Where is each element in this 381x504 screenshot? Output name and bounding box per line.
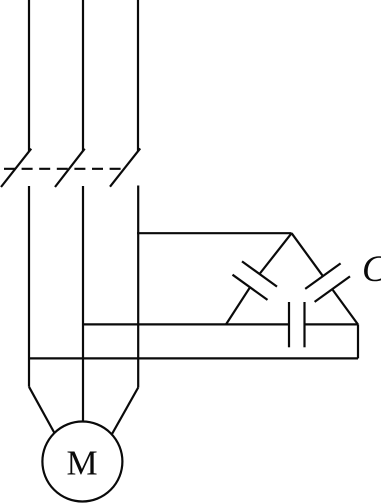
wire phase L2 top vertical xyxy=(82,0,84,152)
switch S pole 2 blade xyxy=(55,149,85,187)
wire phase L1 top vertical xyxy=(28,0,30,152)
wire bus right segment xyxy=(305,323,359,325)
switch S pole 1 blade xyxy=(1,149,31,187)
wire delta right branch upper lead xyxy=(292,233,323,276)
wire delta left branch lower lead xyxy=(226,287,250,324)
capacitor C bottom plate pair xyxy=(289,302,305,347)
wire L1 slanted lead to motor xyxy=(29,387,55,434)
wire phase L2 lower vertical xyxy=(82,186,84,423)
wire right side vertical xyxy=(357,324,359,358)
wire bus from L1 (bottom horizontal) xyxy=(29,357,358,359)
wire phase L3 top vertical xyxy=(137,0,139,151)
capacitor C right plate pair xyxy=(305,263,350,302)
wire phase L3 lower vertical xyxy=(137,186,139,388)
switch S mechanical link (dashed) xyxy=(4,168,124,170)
wire L3 slanted lead to motor xyxy=(112,388,138,435)
motor M circle xyxy=(42,422,122,502)
wire phase L1 lower vertical xyxy=(28,186,30,387)
switch S pole 3 blade xyxy=(110,148,140,186)
capacitor C left plate pair xyxy=(233,261,278,300)
wire bus from L2 left segment xyxy=(83,323,289,325)
wire delta left branch upper lead xyxy=(260,233,292,274)
svg-text:M: M xyxy=(66,444,97,483)
wire L3 to delta apex (horizontal) xyxy=(137,232,292,234)
wire delta right branch lower lead xyxy=(333,290,358,325)
svg-text:C: C xyxy=(362,249,381,290)
